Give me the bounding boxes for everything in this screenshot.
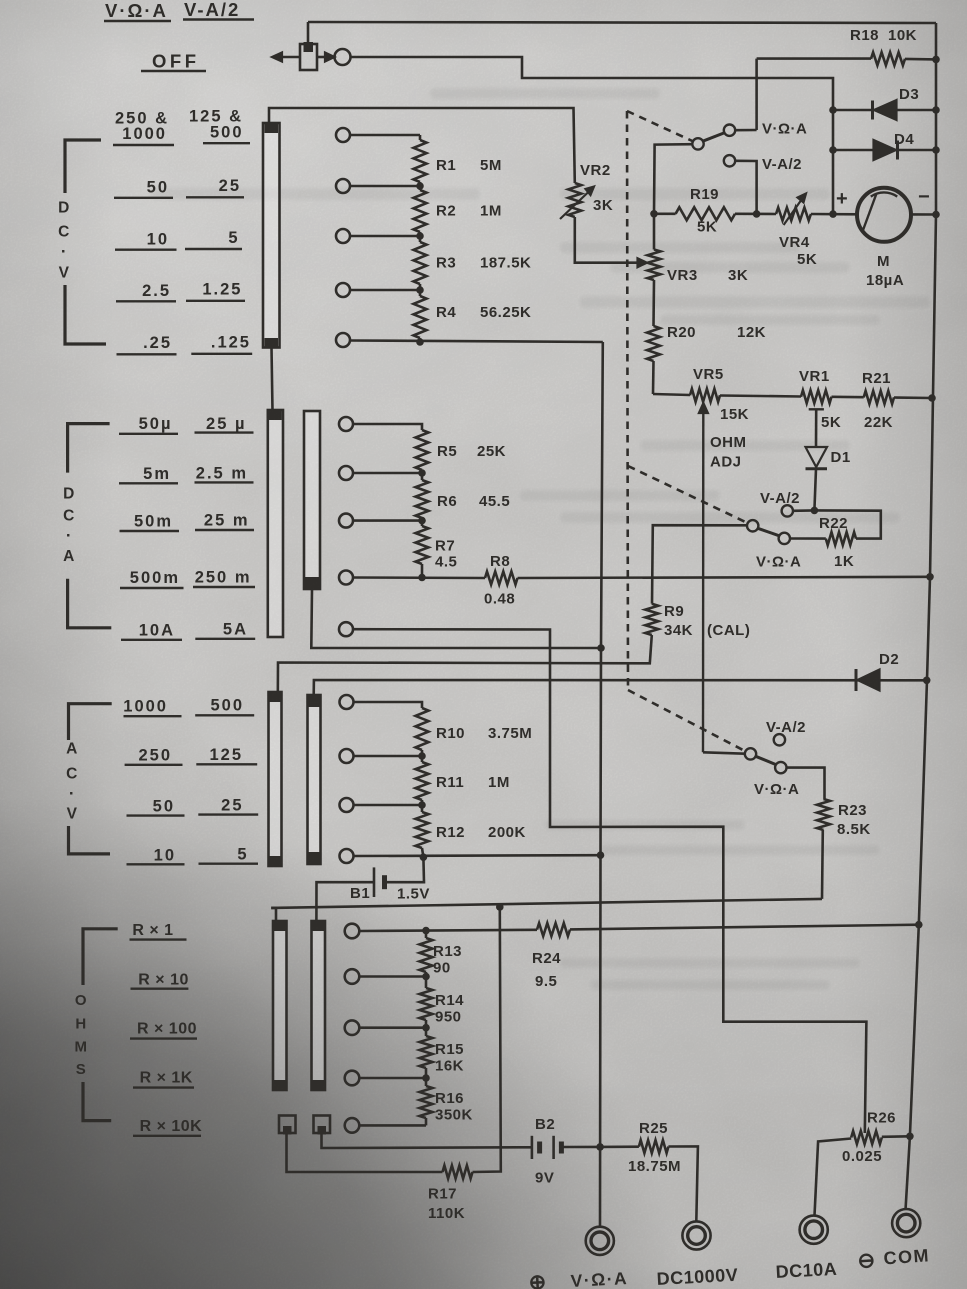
wafer bar AC-V left bbox=[269, 692, 282, 866]
switch mid: V-ohm-A contact bbox=[779, 533, 790, 544]
resistor R3 bbox=[414, 242, 427, 284]
diode D3 bbox=[833, 109, 936, 112]
meter M bbox=[911, 213, 936, 216]
diode D4 bbox=[833, 149, 936, 152]
dashed gang to lower wiper bbox=[628, 690, 745, 751]
bracket DC-A bbox=[68, 424, 110, 473]
wafer bar OHMS right bbox=[312, 921, 326, 1090]
terminal DC1000V bbox=[682, 1221, 710, 1249]
bracket OHMS bbox=[83, 929, 118, 985]
wire mid wiper to R9 bbox=[652, 525, 747, 604]
wire DC-V bar bottom to DC-A bar top bbox=[272, 348, 273, 412]
terminal VOA bbox=[586, 1227, 614, 1255]
resistor R21 bbox=[864, 391, 894, 404]
contact circles AC-V bbox=[340, 695, 354, 709]
main vertical V-ohm-A line bbox=[600, 342, 603, 1227]
node R18 right rail junction bbox=[932, 56, 940, 64]
contact V-A/2 upper bbox=[724, 155, 735, 166]
contact circles DC-A bbox=[339, 417, 353, 431]
resistor R7 bbox=[353, 519, 422, 522]
wire wafer top row bbox=[269, 108, 575, 183]
meter row / resistor R19 bbox=[654, 213, 676, 216]
resistor R22 loop bbox=[814, 510, 880, 538]
wire R18 left to V-ohm-A contact bbox=[755, 59, 758, 130]
wire contacts to R1 chain bbox=[350, 134, 420, 137]
resistor R23 bbox=[817, 799, 830, 830]
wire upper wiper to R19 row bbox=[654, 144, 692, 214]
potentiometer VR4 bbox=[776, 208, 811, 221]
potentiometer VR5 bbox=[653, 394, 690, 395]
contact V-ohm-A upper bbox=[724, 125, 735, 136]
diode D2 row bbox=[314, 680, 927, 695]
switch low: V-ohm-A contact bbox=[775, 762, 786, 773]
wire .25 row to main vertical bbox=[350, 341, 603, 343]
resistor R12 bbox=[354, 804, 423, 807]
wire B1 minus row to R23 bottom bbox=[271, 908, 276, 921]
plug contact square 2 bbox=[314, 1116, 331, 1134]
dashed gang to middle wiper bbox=[628, 466, 747, 523]
resistor R10 bbox=[354, 702, 423, 708]
wire OFF circle to D3/D4 branch bbox=[351, 57, 834, 214]
resistor R25 bbox=[600, 1145, 639, 1148]
wafer bar DC-A left bbox=[268, 410, 283, 637]
resistor R8 row to right rail bbox=[353, 576, 485, 579]
VR1 wiper tap bbox=[809, 408, 824, 410]
OFF left arrow bbox=[276, 56, 300, 59]
resistor R17 bbox=[287, 1135, 443, 1173]
dashed gang line vertical bbox=[627, 111, 628, 690]
diode D1 bbox=[806, 447, 828, 467]
resistor R14 bbox=[420, 988, 433, 1020]
resistor R20 bbox=[652, 280, 655, 326]
wafer bar OHMS left bbox=[273, 921, 287, 1090]
switch mid: wiper bbox=[747, 520, 758, 531]
wafer bar AC-V right bbox=[308, 695, 321, 864]
OHM ADJ wiper arrow bbox=[702, 409, 705, 752]
potentiometer VR2 bbox=[568, 183, 581, 217]
dashed gang to upper wiper bbox=[627, 111, 694, 142]
OFF right arrow bbox=[317, 56, 328, 59]
bracket AC-V bbox=[69, 704, 112, 740]
resistor R5 bbox=[353, 424, 422, 430]
resistor R4 bbox=[414, 296, 427, 338]
resistor R6 bbox=[353, 472, 422, 475]
switch upper blade bbox=[703, 133, 725, 142]
resistor R15 bbox=[420, 1036, 433, 1068]
OFF wiper circle bbox=[335, 49, 351, 65]
resistor R11 bbox=[354, 755, 423, 758]
wire 10A contact long path to R26 bbox=[353, 629, 866, 1133]
wire top rail from OFF to right side bbox=[308, 22, 936, 23]
battery B2 bbox=[322, 1135, 532, 1149]
potentiometer VR1 bbox=[801, 390, 832, 403]
switch upper: wiper circle bbox=[692, 138, 703, 149]
resistor R9 bbox=[645, 604, 658, 635]
contact circles DC-V bbox=[336, 128, 350, 142]
switch low: V-A/2 contact bbox=[774, 734, 785, 745]
wire R23 branch bbox=[821, 830, 824, 899]
OFF switch contact box bbox=[300, 44, 317, 70]
switch low: wiper bbox=[745, 748, 756, 759]
switch mid: V-A/2 contact bbox=[782, 505, 793, 516]
nodes R chain bbox=[416, 182, 424, 190]
resistor R24 row bbox=[360, 930, 538, 931]
potentiometer VR3 bbox=[653, 214, 656, 250]
contact circles OHMS bbox=[345, 924, 360, 939]
resistor R26 bbox=[851, 1131, 882, 1144]
wafer bar DC-V bbox=[263, 123, 280, 348]
wire 10V AC row to main vertical bbox=[354, 854, 601, 857]
resistor R18 bbox=[757, 57, 871, 60]
wafer bar DC-A right bbox=[304, 411, 320, 589]
terminal DC10A bbox=[800, 1216, 828, 1244]
resistor R2 bbox=[414, 190, 427, 232]
resistor R1 bbox=[419, 135, 422, 140]
resistor R16 bbox=[420, 1086, 433, 1118]
right rail vertical bbox=[906, 23, 937, 1210]
battery B1 bbox=[386, 857, 425, 882]
resistor R13 bbox=[425, 931, 428, 938]
wire DC-A right bar bottom to node row bbox=[311, 589, 601, 648]
OFF switch stem bbox=[307, 22, 310, 45]
plug contact square 1 bbox=[279, 1116, 296, 1134]
wires OHMS contacts to chain bbox=[360, 975, 427, 978]
terminal COM bbox=[892, 1209, 920, 1237]
wire VR2 bottom to VR3 wiper arrow bbox=[575, 217, 640, 263]
bracket DC-V bbox=[65, 140, 101, 193]
